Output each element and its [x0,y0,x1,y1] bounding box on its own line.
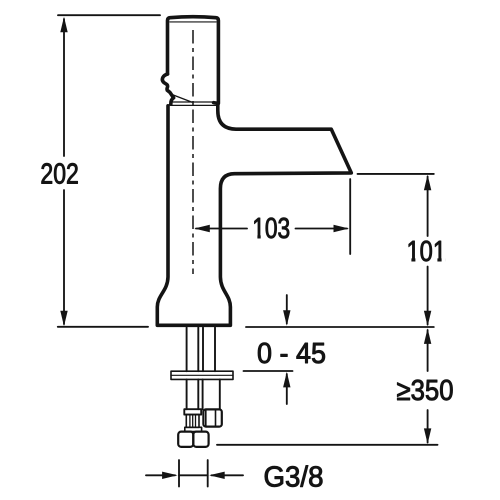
svg-text:101: 101 [407,236,447,268]
svg-text:103: 103 [252,213,290,245]
svg-text:0 - 45: 0 - 45 [257,338,326,370]
svg-text:202: 202 [40,158,78,190]
svg-text:G3/8: G3/8 [264,462,324,494]
svg-text:≥350: ≥350 [397,375,454,407]
